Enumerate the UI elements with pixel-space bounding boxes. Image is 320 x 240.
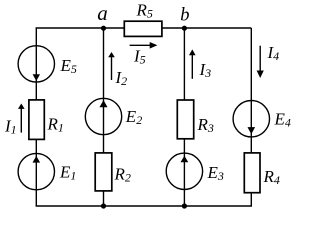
source E3 xyxy=(166,153,224,189)
resistor R1 xyxy=(29,100,64,139)
wire right branch vertical xyxy=(250,28,252,206)
svg-text:b: b xyxy=(180,6,189,26)
wire branch 3 vertical (node b down) xyxy=(183,28,185,206)
source E1 xyxy=(18,153,76,189)
resistor R4 xyxy=(244,153,280,193)
resistor R3 xyxy=(177,100,214,139)
current arrow I5 xyxy=(130,42,158,67)
wire left branch vertical xyxy=(35,28,37,206)
resistor R5 xyxy=(124,1,162,37)
current arrow I3 xyxy=(189,49,211,80)
wire branch 2 vertical (node a down) xyxy=(103,28,105,206)
wire bottom horizontal rail xyxy=(36,205,252,207)
resistor R2 xyxy=(95,153,131,191)
source E5 xyxy=(18,46,77,82)
svg-text:a: a xyxy=(97,1,108,25)
current arrow I4 xyxy=(257,43,280,78)
source E2 xyxy=(85,98,142,134)
current arrow I1 xyxy=(4,104,25,137)
node a xyxy=(97,1,108,31)
source E4 xyxy=(233,101,291,137)
junction dot bottom left xyxy=(101,203,106,208)
wire top horizontal a-b rail xyxy=(36,27,252,29)
current arrow I2 xyxy=(108,52,127,88)
junction dot bottom right xyxy=(182,203,187,208)
node b xyxy=(180,6,189,31)
